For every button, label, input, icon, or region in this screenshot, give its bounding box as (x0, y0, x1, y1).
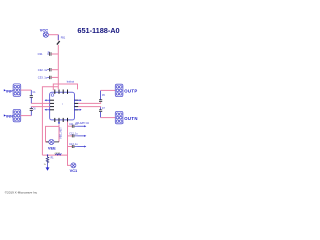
port INP (4, 89, 6, 91)
wire INP to IC (31, 102, 50, 104)
branch capacitor C11 (68, 123, 87, 128)
inductor FB2 (series in rail) (56, 154, 62, 155)
IC left pins (50, 100, 54, 110)
svg-text:C33 .1u: C33 .1u (38, 76, 48, 80)
VEE stub right (54, 141, 59, 143)
svg-text:©2019 X-Microwave Inc: ©2019 X-Microwave Inc (5, 190, 38, 194)
pin 1 marker (51, 94, 54, 97)
wire VCC rail right (58, 84, 77, 89)
wire to OUTP connector (101, 89, 116, 91)
capacitor C4 (38, 76, 59, 80)
junction node (47, 154, 48, 155)
wire VEE vertical (58, 125, 60, 142)
svg-text:VC1: VC1 (70, 168, 78, 173)
capacitor C5 (series OUTP) (99, 90, 106, 101)
bottom arrow pin2 (58, 122, 60, 124)
IC top pins (55, 90, 68, 94)
left pin arrows (45, 99, 50, 111)
port INN (4, 114, 6, 116)
connector J3 (OUTP) (115, 84, 123, 96)
IC U1 body (50, 92, 75, 120)
wire VCC vertical (57, 35, 59, 90)
wire VCC horizontal (48, 34, 58, 36)
svg-text:C31: C31 (38, 52, 43, 56)
VEE power symbol (49, 139, 54, 144)
capacitor C1 (series INP) (30, 90, 37, 103)
wire OUTP from IC (78, 102, 100, 103)
svg-text:VEE: VEE (48, 145, 56, 150)
ground arrow (down port) (47, 164, 49, 168)
connector J2 (INN) (13, 109, 21, 121)
svg-text:FB1: FB1 (61, 36, 66, 39)
wire VC1 vertical (68, 122, 71, 166)
VCC power symbol (43, 32, 48, 37)
VC1 power symbol (71, 163, 76, 168)
svg-text:VCC: VCC (40, 28, 48, 33)
connector J1 (INP) (13, 84, 21, 96)
resistor R1 (44, 155, 55, 166)
wire pin1 drop (53, 84, 58, 90)
svg-text:C32 .1u: C32 .1u (38, 68, 48, 72)
IC bottom pins (55, 118, 68, 122)
wire VEE loop (46, 126, 60, 141)
svg-text:bufout: bufout (67, 79, 74, 83)
svg-text:INN: INN (6, 114, 13, 119)
center dot (62, 104, 63, 105)
capacitor C7 (series OUTN) (99, 107, 106, 117)
right pin arrows (74, 99, 81, 111)
IC right pins (74, 100, 78, 110)
wire bottom rail (42, 154, 67, 156)
svg-text:XM-A2H7-04: XM-A2H7-04 (76, 122, 90, 125)
wire to OUTN connector (101, 117, 116, 119)
connector J4 (OUTN) (115, 111, 123, 123)
wire INN (21, 115, 32, 117)
wire left long branch (42, 87, 58, 155)
ferrite bead FB1 (57, 41, 60, 45)
VEE stub left (46, 141, 49, 143)
branch capacitor C13 (68, 143, 87, 148)
svg-text:VEE_NET: VEE_NET (59, 127, 63, 139)
svg-text:INP: INP (6, 89, 13, 94)
capacitor C6 (series INN) (30, 107, 37, 116)
wire INN to IC (31, 106, 50, 108)
branch capacitor C12 (68, 133, 87, 138)
svg-text:OUTP: OUTP (124, 89, 137, 94)
capacitor C2 (38, 51, 59, 56)
capacitor C3 (38, 68, 59, 72)
svg-text:OUTN: OUTN (124, 116, 138, 121)
svg-text:651-1188-A0: 651-1188-A0 (77, 26, 119, 35)
wire INP (21, 89, 32, 91)
wire OUTN from IC (78, 106, 100, 109)
